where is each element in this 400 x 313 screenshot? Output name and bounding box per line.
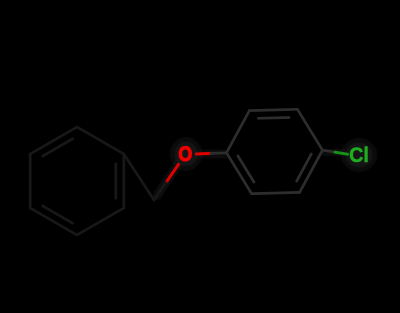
bond O-ring red half <box>196 152 211 156</box>
bond ring-Cl gray half <box>323 150 336 152</box>
bond ring-Cl green half <box>335 152 348 154</box>
halo along O bonds <box>154 154 227 200</box>
bond O-CH2 red half <box>166 164 179 182</box>
bond O-CH2 gray half <box>154 183 166 200</box>
svg-text:O: O <box>178 143 192 167</box>
bond CH2 to left ring <box>124 154 154 200</box>
halo behind Cl label <box>343 140 375 170</box>
halo along Cl bond <box>322 151 347 154</box>
halo behind O label <box>172 139 200 169</box>
left benzene ring <box>30 127 124 235</box>
bond O-ring gray half <box>211 151 227 154</box>
atom label O <box>178 143 192 167</box>
atom label Cl <box>349 143 369 167</box>
right benzene ring <box>227 109 323 193</box>
svg-text:Cl: Cl <box>349 143 369 167</box>
